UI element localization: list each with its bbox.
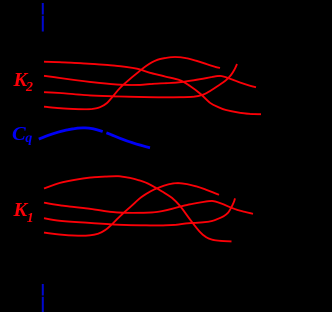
K2 curve 1 [44, 62, 261, 114]
dashed cursor line bottom segment [42, 284, 44, 312]
label Cq [12, 124, 32, 149]
Cq curve [39, 128, 150, 148]
K2 curve 4 [44, 57, 220, 109]
label K2 [14, 70, 34, 95]
K2 curve 2 [44, 76, 256, 87]
K1 curve 3 [44, 198, 235, 225]
K2 curve 3 [44, 64, 237, 97]
K1 curve 2 [44, 201, 253, 214]
K1 curve 1 [44, 176, 232, 241]
K1 curve 4 [44, 183, 219, 236]
dashed cursor line top segment [42, 3, 44, 32]
label K1 [14, 200, 34, 225]
